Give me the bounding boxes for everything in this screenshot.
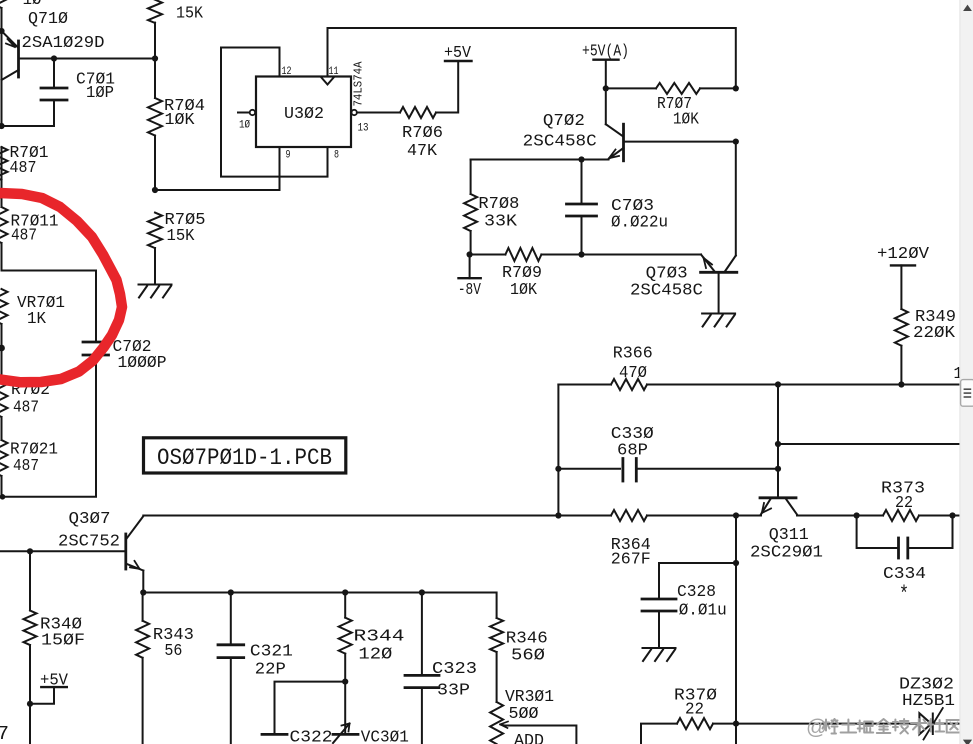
svg-text:7: 7	[0, 723, 9, 744]
svg-text:22P: 22P	[255, 661, 286, 680]
label 2SA1029D	[22, 34, 105, 53]
label Q710	[28, 10, 68, 29]
wire R346 to VR301	[496, 652, 498, 702]
svg-text:VC3Ø1: VC3Ø1	[361, 729, 409, 744]
label C328	[677, 583, 716, 602]
label -8V	[458, 281, 482, 300]
value 0.022u (C703)	[611, 214, 668, 233]
svg-text:22ØK: 22ØK	[913, 324, 956, 343]
svg-text:2SC458C: 2SC458C	[523, 133, 597, 152]
resistor R349	[895, 309, 908, 346]
label R370	[674, 687, 717, 706]
value 10P (C701)	[86, 84, 114, 103]
resistor R346	[490, 618, 503, 652]
svg-text:C328: C328	[677, 583, 716, 602]
wire feedback loop pin12 to pin8	[221, 48, 328, 177]
node junction collector/R373+C334	[854, 512, 860, 518]
scrollbar (track, up arrow, thumb with grip, down arrow)	[960, 0, 973, 744]
value 10K (R707)	[673, 111, 700, 130]
wire Q311 collector to R373	[797, 515, 857, 517]
label R708	[478, 195, 519, 214]
wire pin 13 to R706	[357, 112, 400, 114]
pin 10 stub	[238, 112, 250, 114]
svg-text:HZ5B1: HZ5B1	[902, 692, 955, 711]
wire C328 run	[659, 563, 736, 599]
wire Q307 emitter down to bottom bus	[142, 571, 144, 593]
op-amp/IC U302 body	[256, 77, 351, 148]
node junction Q702 base/right rail	[733, 139, 739, 145]
label VC301	[361, 729, 409, 744]
svg-text:C334: C334	[883, 565, 926, 584]
power -8V stub and bar	[459, 255, 481, 279]
wire collector bus (Q307 to Q311 emitter)	[143, 515, 761, 517]
annotation red hand-drawn circle around VR701	[0, 193, 122, 382]
label C703	[611, 197, 654, 216]
capacitor C703 top lead	[581, 160, 583, 205]
resistor R709	[505, 248, 541, 261]
wire to R707	[606, 87, 656, 89]
label R366	[613, 345, 653, 364]
transistor Q710 bar	[17, 41, 20, 77]
svg-text:Ø.Ø1u: Ø.Ø1u	[679, 602, 727, 621]
label C330	[611, 425, 654, 444]
node junction +5V/rail	[27, 701, 33, 707]
value 22P (C321)	[255, 661, 286, 680]
pin 13 inversion bubble	[352, 110, 357, 115]
value 120 (R344)	[358, 646, 392, 665]
value 1K (VR701)	[27, 310, 47, 329]
label R706	[402, 124, 443, 143]
label R704	[164, 97, 205, 116]
label R346	[506, 630, 548, 649]
svg-text:R366: R366	[613, 345, 653, 364]
label +5V(A)	[582, 42, 629, 61]
svg-text:OSØ7PØ1D-1.PCB: OSØ7PØ1D-1.PCB	[157, 445, 332, 471]
power +5V bar (bottom)	[41, 686, 67, 688]
svg-text:9: 9	[286, 150, 291, 162]
value 56 (R343)	[164, 642, 182, 661]
label VR701	[17, 294, 65, 313]
wire C328 to ground	[658, 611, 660, 648]
node junction base wire / C701	[51, 55, 57, 61]
capacitor C701 top lead	[53, 59, 55, 89]
svg-text:+5V: +5V	[444, 44, 472, 63]
value 47K (R706)	[407, 142, 438, 161]
zener diode DZ302 triangle	[919, 713, 931, 734]
transistor Q703 bar	[701, 271, 737, 274]
power +5V(A) bar	[594, 59, 619, 61]
value 487 (R702)	[13, 399, 39, 418]
pin 8 label	[334, 150, 339, 162]
wire Q311 base rail	[777, 385, 779, 498]
power +5V bar	[445, 60, 472, 62]
wire R704 rail	[154, 23, 156, 285]
svg-text:33K: 33K	[484, 213, 518, 232]
resistor R707	[656, 83, 700, 94]
resistor R344	[339, 618, 352, 654]
wire R343 leads	[142, 593, 144, 744]
capacitor C328 plates	[642, 599, 676, 611]
node junction rail/Q710 base	[152, 55, 158, 61]
transistor Q311 collector	[786, 499, 797, 515]
node junction rail / U302 pin9 wire	[152, 187, 158, 193]
wire left rail (cropped at image edge)	[1, 8, 3, 497]
label Q311	[769, 526, 809, 545]
capacitor C702 plates	[83, 342, 109, 355]
label R364	[611, 536, 651, 555]
wire Q307 base run from left edge	[0, 550, 124, 552]
resistor R370	[677, 718, 713, 729]
wire right rail segment	[735, 142, 737, 256]
label HZ5B1 (DZ302)	[902, 692, 955, 711]
wire R340 rail	[29, 551, 31, 744]
svg-text:22: 22	[685, 701, 704, 720]
resistor R701	[0, 147, 8, 180]
node junction bus/mid rail	[733, 512, 739, 518]
label 2SC458C (Q702)	[523, 133, 597, 152]
capacitor C322 top plate	[262, 733, 287, 736]
node box corner junction	[0, 494, 5, 500]
value 22 (R370)	[685, 701, 704, 720]
label 7 (cropped text bottom-left)	[0, 723, 9, 744]
node junction mid rail/C328 run	[733, 560, 739, 566]
value 487 (R7011)	[11, 226, 37, 245]
svg-text:1Ø: 1Ø	[239, 120, 250, 132]
capacitor C321 leads	[230, 593, 232, 744]
resistor R706	[400, 107, 436, 118]
node junction R344/C322/VC301	[342, 679, 348, 685]
label 2SC752 (Q307)	[58, 533, 120, 552]
svg-text:-8V: -8V	[458, 281, 482, 300]
svg-text:R344: R344	[354, 628, 405, 647]
resistor R364	[611, 510, 647, 521]
pin 10 inversion bubble	[250, 110, 255, 115]
value 220K (R349)	[913, 324, 956, 343]
wire R709 to Q703 emitter	[541, 254, 701, 256]
label 2SC458C (Q703)	[630, 282, 703, 301]
svg-text:22: 22	[895, 494, 913, 513]
node junction R373 right/C334	[949, 512, 955, 518]
svg-text:11: 11	[329, 66, 339, 78]
value 1000P (C702)	[118, 354, 167, 373]
svg-text:487: 487	[13, 457, 39, 476]
value 10K (R704)	[165, 111, 196, 130]
pin 11 label	[329, 66, 339, 78]
svg-text:1ØØØP: 1ØØØP	[118, 354, 167, 373]
svg-text:15ØF: 15ØF	[41, 632, 85, 651]
node junction emitter wire/C703	[578, 156, 584, 162]
resistor R702	[0, 381, 8, 417]
resistor R343	[136, 621, 149, 658]
svg-text:487: 487	[10, 159, 37, 178]
svg-text:1ØP: 1ØP	[86, 84, 114, 103]
label VR301	[505, 688, 554, 707]
value 487 (R7021)	[13, 457, 39, 476]
wire Q702 emitter run	[471, 159, 609, 161]
node junction C703/R709 wire	[578, 251, 584, 257]
label +5V	[444, 44, 472, 63]
svg-text:2SC458C: 2SC458C	[630, 282, 703, 301]
capacitor C701 plates	[41, 88, 67, 100]
box around VR701 network (C702 interrupts right edge)	[2, 271, 97, 497]
svg-text:U3Ø2: U3Ø2	[284, 105, 324, 124]
power +120V bar	[891, 264, 915, 266]
transistor Q703 collector	[725, 256, 736, 272]
svg-text:56: 56	[164, 642, 182, 661]
svg-text:+5V(A): +5V(A)	[582, 42, 629, 61]
value 15K (top resistor)	[176, 5, 204, 24]
label R343	[153, 626, 194, 645]
label R701	[10, 144, 49, 163]
svg-text:33P: 33P	[437, 682, 470, 701]
label 74LS74A (rotated)	[353, 61, 366, 106]
label C702	[113, 338, 152, 357]
wire R373 right to scrollbar edge	[953, 515, 960, 517]
label C321	[250, 642, 293, 661]
transistor Q703 emitter with NPN arrow	[701, 255, 715, 272]
svg-text:2SC752: 2SC752	[58, 533, 120, 552]
transistor Q311 emitter with NPN arrow	[761, 499, 771, 514]
wire pin 11 to +5V(A) rail (top run)	[328, 28, 736, 88]
node junction C330/right rail	[775, 466, 781, 472]
node junction R708/R709/-8V	[467, 251, 473, 257]
value 267F (R364)	[611, 551, 651, 570]
capacitor C703 plates	[567, 204, 597, 216]
ground under R705	[139, 285, 172, 298]
transistor Q710 collector	[2, 70, 19, 80]
svg-text:12Ø: 12Ø	[358, 646, 392, 665]
value 33K (R708)	[484, 213, 518, 232]
node VR701 wiper junction	[0, 345, 5, 352]
svg-text:2SA1Ø29D: 2SA1Ø29D	[22, 34, 105, 53]
node junction bus/C321	[228, 589, 234, 595]
label R344	[354, 628, 405, 647]
label +5V (bottom)	[40, 672, 69, 691]
svg-text:C322: C322	[290, 729, 333, 744]
zener diode DZ302 cathode bar with slash	[924, 708, 943, 740]
variable resistor VR701	[0, 289, 8, 324]
transistor Q702 collector	[606, 124, 623, 136]
wire bottom bus	[143, 593, 496, 619]
value 68P (C330)	[617, 441, 648, 460]
svg-text:*: *	[899, 584, 909, 607]
label 1 (cropped at scrollbar)	[954, 365, 963, 384]
capacitor C323 leads	[421, 593, 423, 744]
label C322	[290, 729, 333, 744]
svg-text:74LS74A: 74LS74A	[353, 61, 366, 106]
value 500 (VR301)	[509, 705, 539, 724]
svg-text:47K: 47K	[407, 142, 438, 161]
transistor Q702 base wire to right rail	[625, 141, 736, 143]
svg-text:15K: 15K	[167, 227, 196, 246]
node junction base wire/R340 rail	[27, 548, 33, 554]
wire R707 to right rail	[700, 87, 736, 89]
label R707	[657, 95, 692, 114]
label 10 (cropped pin text at top)	[23, 0, 42, 10]
pin 9 wire and run to R704 rail	[155, 147, 280, 190]
capacitor VC301 plate	[333, 733, 358, 736]
svg-text:@: @	[806, 716, 827, 739]
svg-text:8: 8	[334, 150, 339, 162]
wire DZ302 to scrollbar edge	[933, 723, 959, 725]
node junction R366 wire/R349	[898, 381, 904, 387]
wire R373 leads	[857, 515, 953, 517]
label R709	[502, 264, 542, 283]
node junction mid-right run/base rail	[775, 441, 781, 447]
label Q702	[543, 112, 585, 131]
svg-text:487: 487	[13, 399, 39, 418]
wire R344 leads	[344, 593, 346, 682]
variable resistor VR301 wiper arrow	[500, 722, 508, 729]
pin 13 label	[358, 123, 369, 135]
label R349	[915, 308, 956, 327]
svg-text:267F: 267F	[611, 551, 651, 570]
capacitor C703 bottom lead	[581, 216, 583, 255]
label DZ302	[899, 675, 954, 694]
resistor R366	[611, 379, 647, 390]
wire R349 to R366 run	[900, 346, 902, 385]
node junction C330/left branch	[555, 466, 561, 472]
value 560 (R346)	[511, 647, 545, 666]
capacitor C334 plates	[899, 538, 908, 558]
wire mid-right run	[778, 443, 959, 445]
wire R708 to junction	[470, 231, 472, 255]
svg-text:Q71Ø: Q71Ø	[28, 10, 68, 29]
variable resistor VR301	[490, 702, 503, 744]
wire R706 to +5V	[436, 61, 458, 113]
transistor Q307 emitter with NPN arrow	[127, 561, 143, 571]
value 22 (R373)	[895, 494, 913, 513]
wire emitter run corner down to R708	[470, 160, 472, 195]
svg-text:1K: 1K	[27, 310, 47, 329]
svg-text:12: 12	[282, 66, 292, 78]
svg-text:1ØK: 1ØK	[510, 281, 538, 300]
pin 12 label	[282, 66, 292, 78]
label R702	[11, 381, 50, 400]
resistor R7011	[0, 207, 8, 243]
label C323	[432, 660, 477, 679]
resistor R7021	[0, 440, 8, 476]
resistor R340	[24, 611, 37, 646]
wire mid rail (Q311 emitter node down)	[735, 516, 737, 744]
resistor R708	[464, 194, 477, 231]
net box ADD	[505, 726, 577, 744]
label C701	[76, 71, 115, 90]
label R705	[165, 211, 206, 230]
svg-text:ADD: ADD	[514, 732, 544, 744]
resistor R704	[148, 98, 162, 136]
svg-text:15K: 15K	[176, 5, 204, 24]
wire to C322	[275, 682, 346, 735]
capacitor C321 plates	[218, 645, 244, 658]
resistor R373	[883, 510, 919, 521]
wire +5V(A) stub down	[605, 60, 607, 125]
value 0.01u (C328)	[679, 602, 727, 621]
resistor (cut off at top, value hidden)	[0, 0, 8, 8]
transistor Q307 collector	[127, 516, 143, 538]
svg-text:2SC29Ø1: 2SC29Ø1	[750, 544, 823, 563]
node junction bus/C323	[419, 589, 425, 595]
wire C330 run	[558, 468, 778, 470]
wire +5V stub to rail	[30, 687, 54, 704]
pin 12 wire	[279, 48, 281, 77]
resistor R705	[148, 213, 162, 249]
IC U302 clock caret on pin 11	[322, 78, 334, 85]
svg-text:R7Ø6: R7Ø6	[402, 124, 443, 143]
pin 9 label	[286, 150, 291, 162]
resistor (cut at top) value 15K	[148, 0, 162, 23]
label +120V	[877, 245, 930, 264]
node junction R366 wire/Q311 base rail	[775, 381, 781, 387]
transistor Q307 bar	[124, 534, 127, 569]
label C334	[883, 565, 926, 584]
svg-text:56Ø: 56Ø	[511, 647, 545, 666]
value 487 (R701)	[10, 159, 37, 178]
transistor Q702 bar	[622, 124, 625, 161]
label 2SC2901 (Q311)	[750, 544, 823, 563]
label ADD	[514, 732, 544, 744]
label R340	[40, 616, 82, 635]
transistor Q710 emitter (from rail dot, PNP arrow into bar)	[2, 31, 19, 48]
label R7021	[10, 441, 58, 460]
svg-text:Q311: Q311	[769, 526, 809, 545]
watermark @稀土掘金技术社区	[806, 716, 961, 739]
node junction bus/R366 branch	[555, 512, 561, 518]
svg-text:+12ØV: +12ØV	[877, 245, 930, 264]
node junction on rail at Q710 emitter	[0, 28, 5, 34]
svg-text:47Ø: 47Ø	[619, 364, 647, 383]
wire +120V stub	[900, 265, 902, 309]
value 33P (C323)	[437, 682, 470, 701]
wire Q710 base to R704 rail	[20, 58, 156, 60]
pin 10 label	[239, 120, 250, 132]
wire R366 run	[558, 384, 959, 386]
label Q703	[646, 265, 688, 284]
wire R366 branch vertical	[557, 385, 559, 516]
capacitor C323 plates	[405, 675, 439, 687]
net-name box OS07P01D-1.PCB	[144, 438, 346, 473]
svg-text:5ØØ: 5ØØ	[509, 705, 539, 724]
svg-text:Q7Ø2: Q7Ø2	[543, 112, 585, 131]
svg-text:C321: C321	[250, 642, 293, 661]
label Q307	[69, 510, 111, 529]
value 470 (R366)	[619, 364, 647, 383]
node junction +5V(A)/R707	[603, 85, 609, 91]
svg-text:Ø.Ø22u: Ø.Ø22u	[611, 214, 668, 233]
transistor Q702 emitter with NPN arrow	[609, 148, 624, 159]
value 15K (R705)	[167, 227, 196, 246]
transistor Q703 base lead	[718, 274, 720, 314]
svg-text:C323: C323	[432, 660, 477, 679]
wire R370 run	[641, 724, 919, 744]
node junction R370/mid rail	[733, 721, 739, 727]
svg-text:13: 13	[358, 123, 369, 135]
value 10K (R709)	[510, 281, 538, 300]
capacitor C330 plates	[623, 459, 636, 482]
ground under C328	[643, 648, 676, 661]
capacitor C334 loop	[857, 516, 953, 549]
label R373	[881, 480, 925, 499]
capacitor C701 bottom lead and return to rail	[2, 100, 55, 126]
node junction R707/right rail	[733, 85, 739, 91]
svg-text:1ØK: 1ØK	[673, 111, 700, 130]
node junction bus/R344	[342, 589, 348, 595]
ground under Q703	[702, 314, 735, 327]
label R7011	[11, 212, 59, 231]
value 150F (R340)	[41, 632, 85, 651]
svg-text:1ØK: 1ØK	[165, 111, 196, 130]
transistor Q311 bar	[760, 496, 796, 499]
